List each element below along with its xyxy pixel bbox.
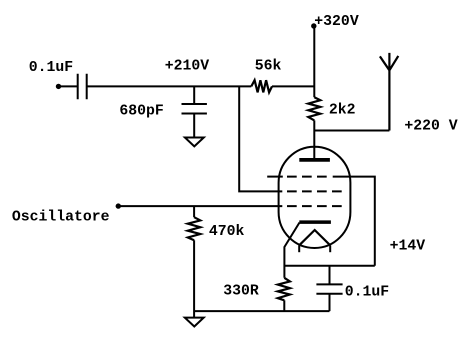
wire grid leak top lead <box>193 206 195 217</box>
svg-text:56k: 56k <box>255 58 282 74</box>
label R4 value 330R <box>223 283 259 299</box>
svg-text:470k: 470k <box>209 224 245 240</box>
svg-text:330R: 330R <box>223 283 259 299</box>
svg-text:2k2: 2k2 <box>329 102 356 118</box>
resistor R2 2k2 <box>308 97 320 120</box>
tube V1 grid3 suppressor dashed row <box>287 176 327 178</box>
label R3 value 470k <box>209 224 245 240</box>
ground GND2 bottom <box>185 318 204 327</box>
wire C3 top lead <box>329 266 331 285</box>
wire screen grid drop from +210V node <box>239 86 282 191</box>
svg-text:0.1uF: 0.1uF <box>29 60 73 76</box>
label +14V <box>390 239 426 255</box>
wire grid3 to cathode tie right side <box>333 177 375 266</box>
resistor R3 470k grid leak <box>188 217 201 240</box>
wire R2 bottom to plate junction <box>313 120 315 130</box>
label R1 value 56k <box>255 58 282 74</box>
wire R4 bottom to ground bus <box>283 300 285 311</box>
svg-text:+210V: +210V <box>165 58 210 74</box>
wire C3 bottom lead <box>329 294 331 311</box>
svg-text:0.1uF: 0.1uF <box>345 284 389 300</box>
svg-text:+220 V: +220 V <box>404 119 457 135</box>
node oscillator input dot <box>116 203 121 208</box>
capacitor C2 680pF <box>182 86 207 137</box>
svg-text:680pF: 680pF <box>119 104 163 120</box>
wire bottom ground bus <box>194 310 329 312</box>
node +320V terminal dot <box>311 23 316 28</box>
wire cathode lead diagonal and down <box>284 223 299 278</box>
tube V1 cathode bar <box>299 220 331 224</box>
label +210V <box>165 58 210 74</box>
wire heater left pin stub <box>298 245 300 252</box>
capacitor C1 0.1uF input coupling <box>78 74 87 99</box>
wire heater right pin stub <box>329 245 331 252</box>
svg-text:Oscillatore: Oscillatore <box>12 209 110 225</box>
label C3 value 0.1uF <box>345 284 389 300</box>
wire grid3 left stub <box>267 176 283 178</box>
label +220 V <box>404 119 457 135</box>
label R2 value 2k2 <box>329 102 356 118</box>
wire oscillator input to grid1 <box>118 205 282 207</box>
wire R3 bottom to ground <box>193 240 195 317</box>
ground GND1 under C2 <box>185 138 204 147</box>
tube V1 grid2 screen dashed row <box>287 190 342 192</box>
tube V1 heater filament <box>299 230 330 245</box>
wire input dot to C1 <box>59 85 78 87</box>
tube V1 anode plate bar <box>299 158 330 162</box>
resistor R4 330R cathode <box>278 278 290 301</box>
resistor R1 56k <box>251 80 272 92</box>
label C2 value 680pF <box>119 104 163 120</box>
tube V1 envelope <box>279 147 351 248</box>
label +320V <box>314 14 359 30</box>
tube V1 grid1 control dashed row <box>287 205 342 207</box>
wire +320V supply vertical <box>313 26 315 97</box>
wire plate junction to antenna <box>314 130 389 132</box>
capacitor C3 0.1uF cathode bypass <box>316 284 342 293</box>
wire R1 right to HT node <box>272 85 314 87</box>
svg-text:+320V: +320V <box>314 14 359 30</box>
antenna ANT1 <box>380 53 398 131</box>
wire plate lead into tube <box>313 131 315 159</box>
label Oscillatore <box>12 209 110 225</box>
label C1 value 0.1uF <box>29 60 73 76</box>
wire cathode tie line <box>284 265 374 267</box>
wire C1 to R1 left <box>87 85 252 87</box>
node input terminal dot <box>56 84 61 89</box>
svg-text:+14V: +14V <box>390 239 426 255</box>
